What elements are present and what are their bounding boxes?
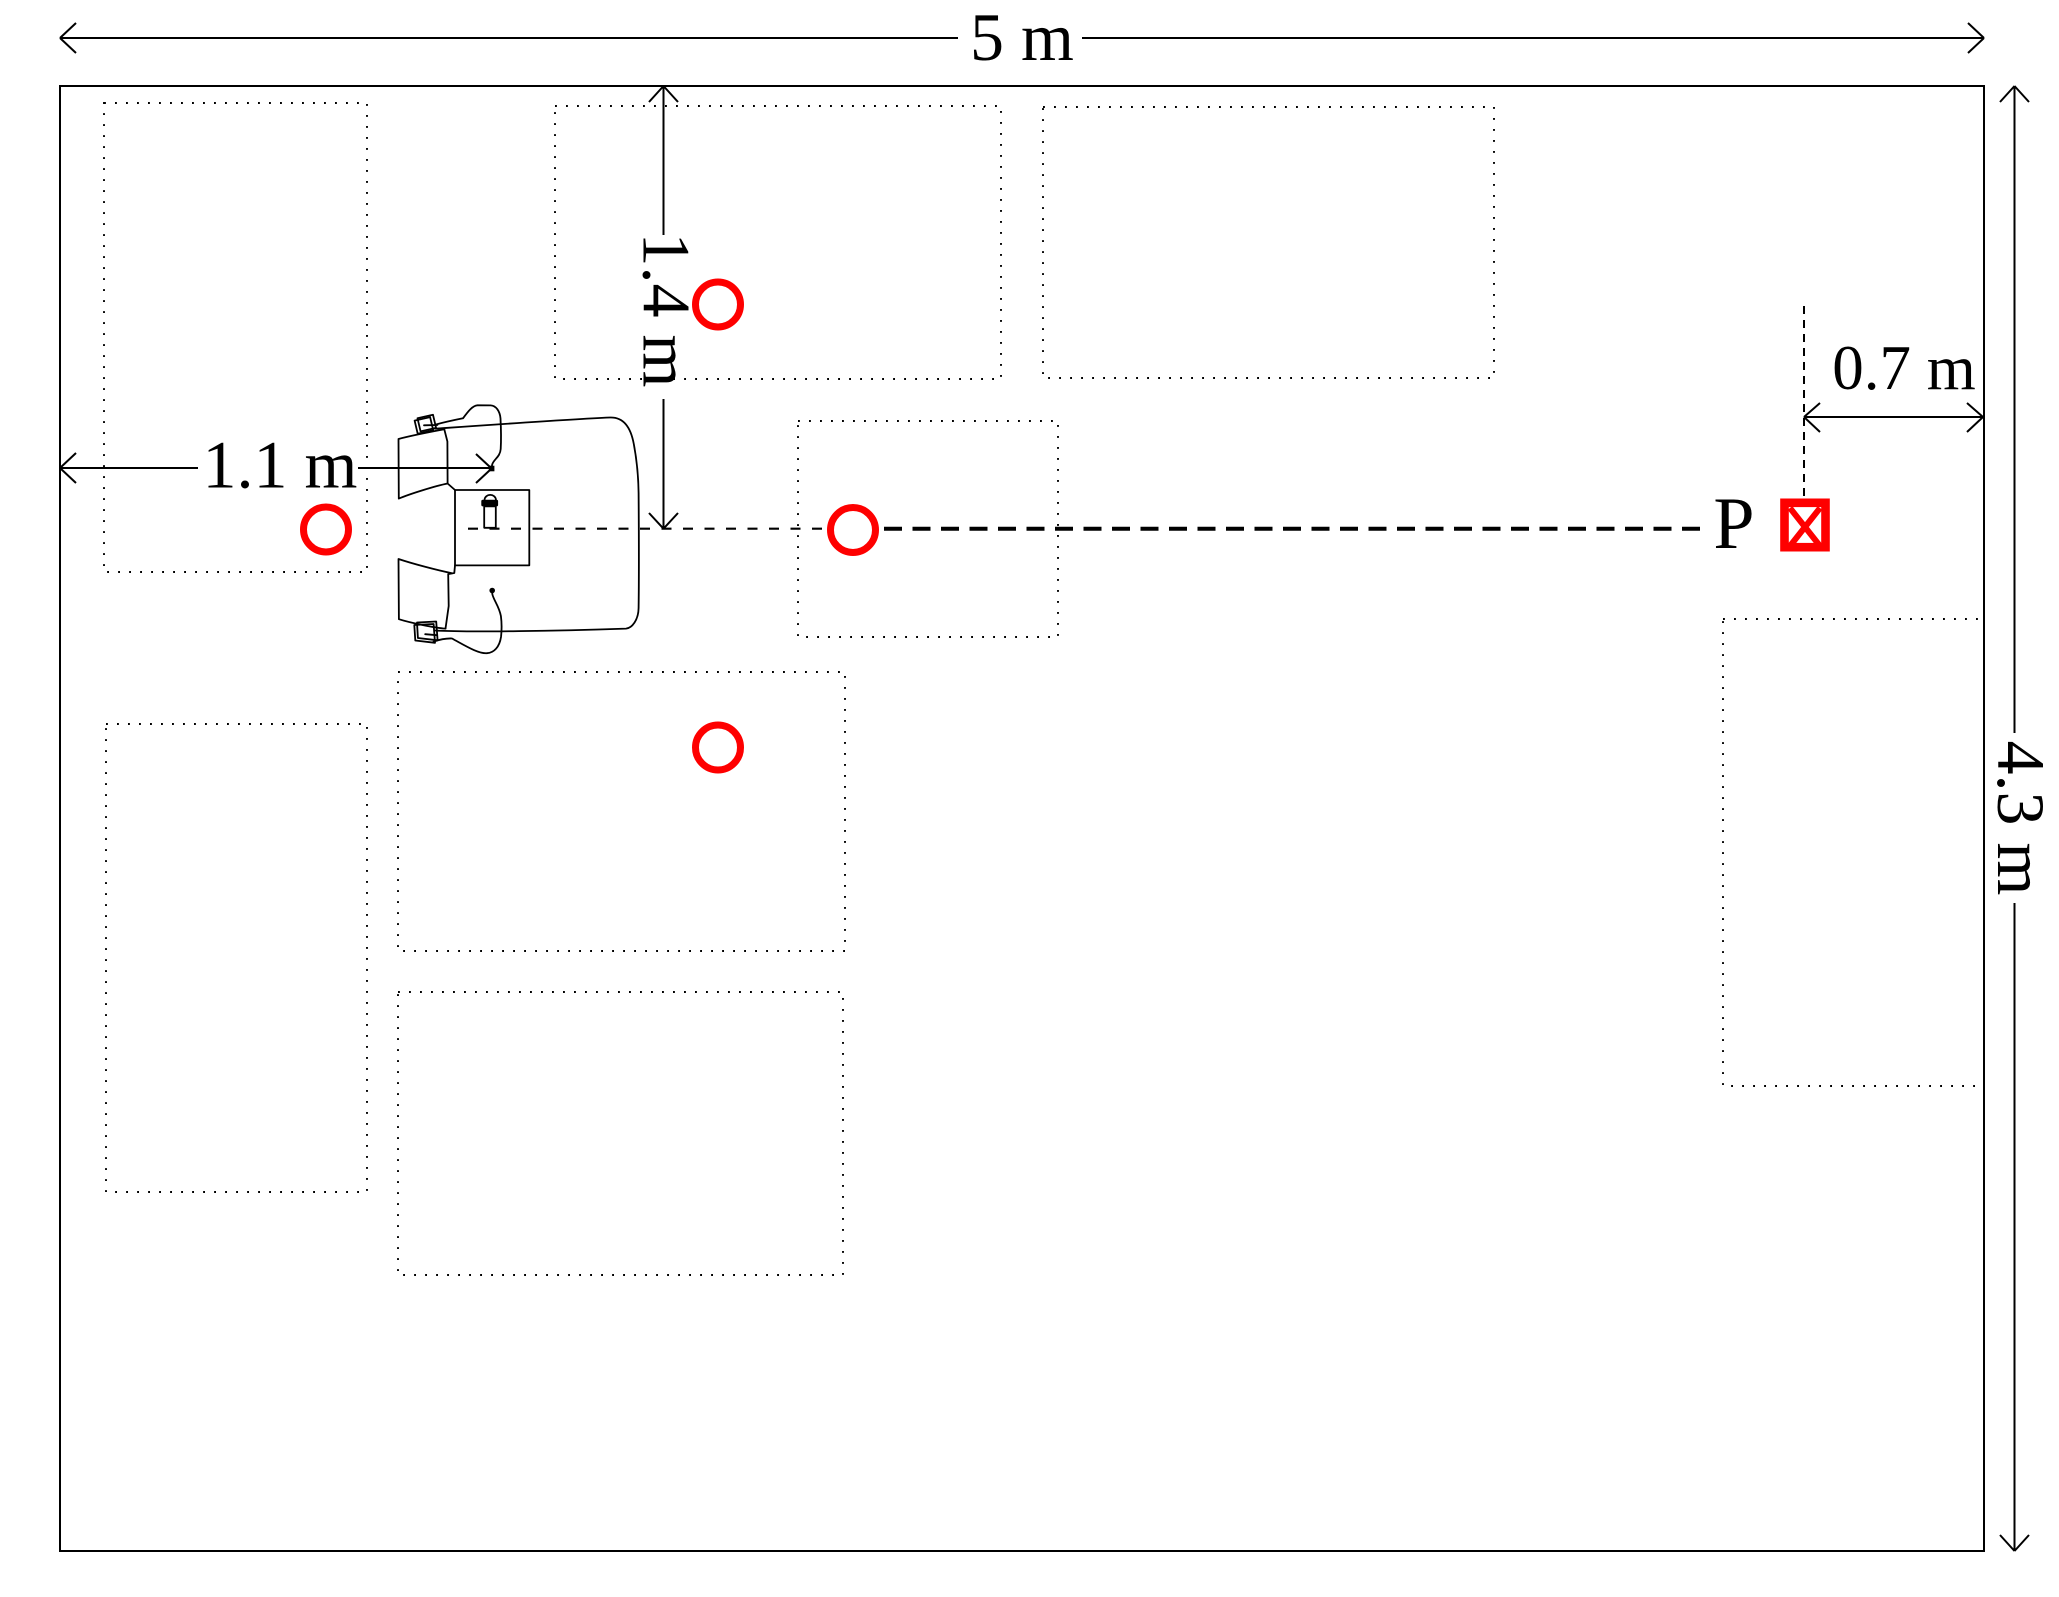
0.7 m right arrowhead: [1967, 403, 1983, 432]
4.3 m top arrowhead: [2000, 86, 2029, 102]
wheelchair seat body: [435, 417, 639, 631]
1.1 m dimension line segments: [60, 467, 489, 469]
1.4 m bottom arrowhead: [649, 513, 678, 529]
dotted rect E right: [1723, 619, 1984, 1086]
dotted rect C top-right: [1043, 107, 1494, 378]
0.7 m left arrowhead: [1804, 403, 1820, 432]
dotted rect H bottom-left: [106, 724, 367, 1192]
1.1 m left arrowhead: [60, 453, 76, 483]
dimension 5 m line: [60, 23, 1984, 53]
wheelchair joystick stick: [484, 506, 496, 527]
svg-text:5 m: 5 m: [970, 0, 1074, 75]
dashed center line thin: [468, 528, 823, 530]
1.4 m dimension line segments: [663, 86, 665, 529]
wheelchair control box: [455, 490, 529, 565]
dashed reference line vertical 0.7 m: [1803, 306, 1805, 498]
crossed square X: [1790, 508, 1820, 546]
5 m left arrowhead: [60, 23, 76, 53]
red circle bottom: [696, 725, 741, 770]
dashed center line thick: [884, 527, 1700, 531]
0.7 m dimension line: [1804, 416, 1983, 418]
wheelchair top caster: [415, 415, 437, 434]
svg-text:4.3 m: 4.3 m: [1983, 741, 2059, 896]
svg-text:P: P: [1713, 483, 1754, 565]
dotted rect F center-left: [398, 672, 845, 951]
wheelchair bottom wheel: [399, 559, 453, 629]
1.1 m right arrowhead: [476, 454, 492, 483]
wheelchair joystick base: [481, 500, 498, 507]
dotted rect B top-middle: [555, 106, 1001, 379]
dotted rect G below F: [398, 992, 843, 1275]
5 m dimension line segments: [60, 37, 1984, 39]
dimension 0.7 m line: [1804, 403, 1983, 432]
crossed square frame: [1785, 503, 1826, 547]
red circle top-middle: [696, 282, 741, 327]
dotted rect D middle: [798, 421, 1058, 637]
red circle middle: [831, 508, 876, 553]
wheelchair top wheel: [399, 429, 448, 498]
5 m right arrowhead: [1968, 23, 1984, 53]
wheelchair top handle curve: [436, 405, 501, 466]
wheelchair bottom cable: [434, 592, 502, 653]
4.3 m bottom arrowhead: [2000, 1535, 2029, 1551]
dimension 1.1 m arrow end dot: [489, 466, 495, 472]
wheelchair cable end dot: [489, 588, 495, 594]
svg-text:1.1 m: 1.1 m: [203, 427, 358, 503]
4.3 m dimension line segments: [2014, 86, 2016, 1551]
wheelchair joystick cap arc: [485, 495, 497, 500]
1.4 m top arrowhead: [649, 86, 678, 102]
wheelchair seat back left edge: [444, 429, 455, 490]
wheelchair bottom caster: [414, 622, 437, 643]
red circle left: [304, 507, 349, 552]
red crossed square (boxtimes) at P: [1785, 503, 1826, 547]
svg-text:0.7 m: 0.7 m: [1832, 333, 1976, 403]
dimension 1.4 m line: [649, 86, 678, 529]
dimension 4.3 m line: [2000, 86, 2029, 1551]
wheelchair: [399, 405, 639, 653]
dotted rect A top-left: [104, 103, 367, 572]
dimension 1.1 m line: [60, 453, 492, 483]
